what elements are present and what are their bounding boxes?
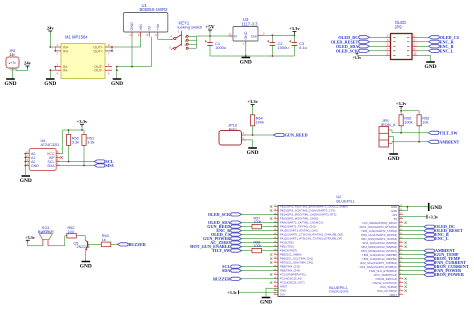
wire U1 +Vo into KEY1 [170,39,173,41]
wire U6 SDA [60,165,94,167]
svg-text:GND: GND [20,178,32,184]
svg-text:100k: 100k [254,244,262,248]
svg-text:GND: GND [80,263,92,269]
svg-text:I2C2_SDA(USART3_RX/PB11): I2C2_SDA(USART3_RX/PB11) [360,265,397,269]
svg-text:NRST: NRST [390,293,398,297]
svg-text:GND: GND [391,205,397,209]
svg-text:GUN_REED: GUN_REED [285,133,308,138]
svg-text:GND: GND [425,64,437,70]
svg-text:TIM3_CH3(ADC12_IN8/PB0): TIM3_CH3(ADC12_IN8/PB0) [362,253,397,257]
net flag SDA (U2) [231,269,242,272]
net flag TILT_SW (U2) [231,249,242,252]
svg-text:OLED_SCK: OLED_SCK [208,212,231,217]
svg-text:3: 3 [400,285,401,287]
svg-text:ANTI_TAMP(PC13): ANTI_TAMP(PC13) [374,273,397,277]
net flag GUN_REED [273,133,284,136]
net flag ENC_R [429,40,440,43]
wire JP8 pin1 to GND [12,68,14,79]
wire OLED_DC right [399,226,424,228]
net flag OLED_SDA [359,45,370,48]
wire FAN_POWER right [399,270,424,272]
resistor R58 100k [252,248,262,252]
net flag AMBIENT (U2) [424,249,435,252]
svg-text:+3.3v: +3.3v [77,119,88,124]
wire HOT_GUN_ENABLE to U2 [242,246,279,248]
svg-text:+5V: +5V [205,25,215,31]
wire U6 VCC to +3.3v [60,153,63,155]
net flag AMBIENT [428,140,439,143]
net flag OLED_RESET [359,40,370,43]
svg-text:100k: 100k [404,120,412,124]
wire M1 OUT- bus [116,67,118,71]
svg-text:PB5(I2C1_SMBA): PB5(I2C1_SMBA) [280,253,302,257]
svg-text:▸+7v: ▸+7v [9,61,16,65]
net flag SDA (U6) [94,164,105,167]
wire IRON_TEMP right [399,258,424,260]
svg-text:GND: GND [130,22,134,31]
svg-text:GND: GND [280,289,286,293]
net flag ENC_B (U2) [424,233,435,236]
JP9 pin stubs [386,36,391,38]
svg-text:SPI1_MISO(ADC12_IN6/PA6): SPI1_MISO(ADC12_IN6/PA6) [361,245,397,249]
net flag FAN_POWER (U2) [424,269,435,272]
wire SCL to U2 [242,266,279,268]
svg-text:TILT_SW: TILT_SW [439,130,458,135]
svg-text:ENC_L: ENC_L [435,236,449,241]
svg-text:PA11(USART1_CTS/CAN_RX/TIM1_CH: PA11(USART1_CTS/CAN_RX/TIM1_CH4/USB_DM) [280,233,343,237]
svg-text:OSC32_IN(PC14): OSC32_IN(PC14) [375,277,397,281]
resistor R56 10k [417,115,421,126]
svg-text:PB12(SPI2_NSS/TIM1_BKIN/USART3: PB12(SPI2_NSS/TIM1_BKIN/USART3_CK/I2C2_S… [280,205,348,209]
net flag BUZZER [117,243,128,246]
svg-text:locking switch: locking switch [178,24,203,29]
svg-text:14: 14 [400,241,402,243]
wire IRON_POWER right [399,274,424,276]
svg-text:46: 46 [274,289,276,291]
net flag SCL (U2) [231,265,242,268]
resistor R55 100k [399,115,403,126]
svg-text:SDA: SDA [222,268,230,273]
svg-text:PB3(JTDO): PB3(JTDO) [280,245,294,249]
net flag FAN_CURRENT (U2) [424,261,435,264]
svg-text:28: 28 [274,217,276,219]
wire JP5 pin1 to TILT_SW [389,130,429,133]
svg-text:PB15(SPI2_MOSI/TIM1_CH3N): PB15(SPI2_MOSI/TIM1_CH3N) [280,217,318,221]
svg-text:M1 MP1584: M1 MP1584 [65,35,88,40]
svg-text:42: 42 [274,273,276,275]
connector JP8 (24v battery input) [6,57,19,68]
wire M1 OUT+ to U1 VIN [111,47,113,51]
svg-text:PC14(OSC32_IN): PC14(OSC32_IN) [280,277,302,281]
svg-text:VCC_WAKEUP(PA0)_WKUP: VCC_WAKEUP(PA0)_WKUP [362,221,397,225]
net flag OLED_CS [429,36,440,39]
svg-text:24v: 24v [10,53,16,57]
svg-text:BUZZER: BUZZER [213,276,231,281]
wire ENC_R to U2 [242,230,279,232]
svg-text:1000u: 1000u [215,45,226,50]
net flag IRON_CURRENT (U2) [424,265,435,268]
ground M1 output [113,78,122,80]
svg-text:GND: GND [247,150,259,156]
resistor R51 3.3k [83,130,85,134]
svg-text:PA8(USART1_CK/TIM1_CH1/MCO): PA8(USART1_CK/TIM1_CH1/MCO) [280,221,323,225]
wire SDA to U2 [242,270,279,272]
svg-text:PB4(JNTRST): PB4(JNTRST) [280,249,297,253]
svg-text:0V: 0V [147,25,151,30]
wire OLED_SDA to U2 [242,222,279,224]
wire AMBIENT right [399,250,424,252]
svg-text:44: 44 [274,281,276,283]
svg-text:GND: GND [388,156,400,162]
net flag OLED_CS (U2) [231,233,242,236]
svg-text:PC13(TAMPER-RTC): PC13(TAMPER-RTC) [280,273,306,277]
net flag GUN_POWER (U2) [231,237,242,240]
wire JP5 pin2 to GND [389,137,394,154]
wire OLED_RESET right [399,230,424,232]
wire JP8 pin2 to 24v flag [16,67,28,71]
svg-text:PB14(SPI2_MISO/TIM1_CH2N/USART: PB14(SPI2_MISO/TIM1_CH2N/USART3_RTS) [280,213,336,217]
svg-text:PB13(SPI2_SCK/TIM1_CH1N/USART3: PB13(SPI2_SCK/TIM1_CH1N/USART3_CTS) [280,209,335,213]
resistor R63 1k [101,242,111,247]
svg-text:27: 27 [274,213,276,215]
svg-text:OUT-: OUT- [94,69,103,73]
power flag +3.3v (U6 pullups) [80,123,84,125]
net flag ENC_L [429,49,440,52]
no-connect marks U2 right [405,222,407,224]
svg-text:TILT_SW: TILT_SW [212,248,231,253]
U6 pin stubs [25,153,29,155]
svg-text:SDA: SDA [47,164,55,168]
resistor R50 3.3k [68,130,70,134]
svg-text:GND: GND [5,81,17,87]
svg-text:1k: 1k [102,238,106,242]
wire bottom rail C1-GND-C2-C3 [210,55,294,57]
U1 pin stubs [131,32,133,37]
net flag HOT_GUN_ENABLE (U2) [231,245,242,248]
wire U2 GND right [399,206,428,208]
wire JP9 pin10 to GND [417,55,431,61]
svg-text:SPI1_MOSI(ADC12_IN7/PA7): SPI1_MOSI(ADC12_IN7/PA7) [361,249,397,253]
svg-text:24v: 24v [47,26,55,31]
power flag +3.3v (JP5) [399,106,403,108]
wire +3.3v rail JP5 [400,107,402,115]
svg-text:TIM2_CH1_ETR(PA15): TIM2_CH1_ETR(PA15) [369,269,397,273]
net flag OLED_SCK [359,49,370,52]
wire U2 GND pin [266,288,278,297]
U3 pin stubs [229,35,234,37]
wire +3.3v into U2 [239,291,279,293]
svg-text:TIM2_CH4(USART2_RX/PA3): TIM2_CH4(USART2_RX/PA3) [361,233,397,237]
ground Q5 [82,261,91,263]
svg-text:21: 21 [400,213,402,215]
ground JP10 [248,147,257,149]
svg-text:1: 1 [400,293,401,295]
svg-text:BLUEPILL: BLUEPILL [329,285,348,290]
power flag 24v (JP8) [26,65,30,67]
ground JP8 [6,78,15,80]
svg-text:PA9(USART1_TX/TIM1_CH2): PA9(USART1_TX/TIM1_CH2) [280,225,316,229]
wire U6 SCL [60,161,94,163]
svg-text:1000u: 1000u [278,45,289,50]
ground flag right (bar) [428,203,430,211]
capacitor C2 1000u [271,35,273,42]
svg-text:10k: 10k [422,120,428,124]
wire buzzer to R62 [48,236,67,246]
M1 left pin stubs [55,46,61,48]
wire R63 to BUZZER flag [111,243,118,245]
wire JP5 pin3 to AMBIENT [389,142,429,144]
wire OLED_SCK to U2 [242,213,279,215]
net flag OLED_DC (U2) [424,225,435,228]
wire KEY1 to +5V rail [188,35,196,37]
svg-text:38: 38 [274,257,276,259]
wire TILT_SW to U2 with R58 [242,250,253,252]
svg-text:GND: GND [244,31,248,39]
wire GUN_POWER to U2 [242,238,279,240]
wire +5V tap [209,30,211,36]
svg-text:PB9(TIM4_CH4): PB9(TIM4_CH4) [280,269,300,273]
net flag BUZZER (U2) [231,277,242,280]
svg-text:OUT+: OUT+ [93,49,103,53]
svg-text:Out: Out [251,34,257,38]
U2 right pin stubs and names [399,206,403,208]
resistor R62 100 [67,233,77,238]
svg-text:+3.3v: +3.3v [289,26,300,31]
svg-text:BUZZER: BUZZER [38,229,54,234]
wire JP10 pin2 to GND [246,140,252,148]
resistor R64 100k [252,105,254,115]
wire M1 OUT- to GND [116,70,118,78]
svg-text:ENC_L: ENC_L [440,48,454,53]
svg-text:13: 13 [400,245,402,247]
ground U3 [242,57,251,59]
capacitor C1 1000u [209,36,211,43]
svg-text:19: 19 [400,221,402,223]
wire IRON_CURRENT right [399,266,424,268]
ground U2 [262,297,271,299]
JP10 pin stubs [242,134,247,136]
svg-text:+3.3v: +3.3v [247,99,258,104]
svg-text:+3.3v: +3.3v [352,56,361,60]
net flag ENC_L (U2) [424,237,435,240]
ground JP5 [389,153,398,155]
svg-text:+3.3v: +3.3v [227,290,238,295]
svg-text:100k: 100k [256,120,264,124]
svg-text:OSC32_OUT(PC15): OSC32_OUT(PC15) [373,281,398,285]
power flag +3.3v (buzzer) [26,239,30,241]
svg-text:0.1u: 0.1u [299,45,307,50]
svg-text:5V: 5V [394,217,397,221]
svg-text:+3.3v: +3.3v [428,214,439,219]
capacitor C3 0.1u [293,35,295,42]
svg-text:37: 37 [274,253,276,255]
svg-text:47: 47 [274,293,276,295]
wire AC_ZERO to U2 [242,242,279,244]
svg-text:IN+: IN+ [63,49,69,53]
ground M1 input [46,78,55,80]
svg-text:OSC_IN(PD0): OSC_IN(PD0) [380,285,397,289]
net flag OLED_RESET (U2) [424,229,435,232]
svg-text:NRST: NRST [280,285,288,289]
svg-text:3.3k: 3.3k [87,140,94,144]
svg-text:GND: GND [430,205,442,211]
svg-text:BLUEPILL: BLUEPILL [336,198,355,203]
net flag GUN_TEMP (U2) [424,253,435,256]
ground JP9 [426,61,435,63]
JP9 right wires [417,36,429,38]
svg-text:AT24C32D: AT24C32D [41,143,60,147]
svg-text:GND: GND [391,209,397,213]
net flag IRON_TEMP (U2) [424,257,435,260]
svg-text:STM32F103C8T6: STM32F103C8T6 [329,291,349,294]
svg-text:IRON_POWER: IRON_POWER [435,272,465,277]
svg-text:GND: GND [111,81,123,87]
svg-text:GND: GND [44,81,56,87]
wire BUZZER to U2 [242,278,279,280]
svg-text:PA15(JTDI): PA15(JTDI) [280,241,294,245]
svg-text:PB6(I2C1_SCL/TIM4_CH1): PB6(I2C1_SCL/TIM4_CH1) [280,257,313,261]
wire ENC_B right [399,234,424,236]
wire M1 IN- to GND [54,67,56,71]
svg-text:39: 39 [274,261,276,263]
wire U3 out to +3.3v [263,34,295,36]
net flag IRON_POWER (U2) [424,273,435,276]
power flag +3.3v (JP10) [251,104,255,106]
svg-text:PC15(OSC32_OUT): PC15(OSC32_OUT) [280,281,305,285]
svg-text:PB8(TIM4_CH3): PB8(TIM4_CH3) [280,265,300,269]
svg-text:20: 20 [400,217,402,219]
U2 left pin stubs and names [274,206,278,208]
power flag +5V [208,29,212,31]
svg-text:B0505S-1WR2: B0505S-1WR2 [140,7,169,12]
svg-text:GND: GND [260,299,272,305]
wire U6 address pins to GND [24,154,26,173]
svg-text:3.3k: 3.3k [72,140,79,144]
svg-text:TIM3_CH4(ADC12_IN9/PB1): TIM3_CH4(ADC12_IN9/PB1) [362,257,397,261]
svg-text:PA12(USART1_RTS/CAN_TX/TIM1_ET: PA12(USART1_RTS/CAN_TX/TIM1_ETR/USB_DP) [280,237,342,241]
svg-text:SPI1_SCK(ADC12_IN5/PA5): SPI1_SCK(ADC12_IN5/PA5) [362,241,397,245]
power flag 24v (M1 input) [48,30,52,32]
net flag GUN_REED (U2) [231,225,242,228]
svg-text:In: In [234,34,237,38]
svg-text:JP9: JP9 [394,25,402,30]
wire ENC_L right [399,238,424,240]
net flag ENC_B [429,45,440,48]
svg-text:SPI1_NSS(USART2_CK/PA4): SPI1_NSS(USART2_CK/PA4) [361,237,397,241]
power flag +3.3v (main) [293,32,295,36]
svg-text:VIN: VIN [139,24,143,31]
wire OLED_CS to U2 [242,234,279,236]
svg-text:+3.3v: +3.3v [25,235,36,240]
svg-text:+3.3v: +3.3v [396,101,407,106]
svg-text:25: 25 [274,205,276,207]
wire U3 GND to rail [245,45,247,56]
svg-text:AMBIENT: AMBIENT [439,139,459,144]
svg-text:4: 4 [400,281,401,283]
svg-text:45: 45 [274,285,276,287]
wire U2 +3.3v right [399,216,427,218]
svg-text:IN-: IN- [63,69,69,73]
svg-text:BUZZER: BUZZER [129,242,147,247]
wire GUN_TEMP right [399,254,424,256]
svg-text:2: 2 [400,289,401,291]
svg-text:TIM2_CH3(USART2_TX/PA2): TIM2_CH3(USART2_TX/PA2) [361,229,397,233]
wire R62 to Q5 collector [76,236,85,240]
no-connect marks U2 left [270,206,272,208]
JP9 left wires [370,36,386,38]
net flag OLED_DC [359,36,370,39]
svg-text:5: 5 [400,277,401,279]
wire JP9 pin9 +3.3v [357,54,386,56]
svg-text:3V3: 3V3 [280,293,285,297]
svg-text:24v: 24v [24,61,32,66]
svg-text:I2C2_SCL(USART3_TX/PB10): I2C2_SCL(USART3_TX/PB10) [360,261,397,265]
net flag OLED_SDA (U2) [231,221,242,224]
net flag ENC_R (U2) [231,229,242,232]
svg-text:GND: GND [31,164,39,168]
wire JP10 pin1 to GUN_REED [246,134,273,136]
M1 right pin stubs [105,46,112,48]
wire +3.3v to buzzer [28,240,43,246]
svg-text:PB7(I2C1_SDA/TIM4_CH2): PB7(I2C1_SDA/TIM4_CH2) [280,261,313,265]
svg-text:100: 100 [68,230,74,234]
wire +3.3v rail U6 [81,124,83,130]
svg-text:GND: GND [240,60,252,66]
wire Q5 emitter to GND [85,251,87,262]
net flag SCL (U6) [94,160,105,163]
svg-text:PA10(USART1_RX/TIM1_CH3): PA10(USART1_RX/TIM1_CH3) [280,229,318,233]
svg-text:OSC_OUT(PD1): OSC_OUT(PD1) [377,289,397,293]
net flag AC_ZERO (U2) [231,241,242,244]
no-connect U6 WP [60,156,62,158]
svg-text:1117-3.3: 1117-3.3 [242,21,259,26]
wire FAN_CURRENT right [399,262,424,264]
wire GUN_REED to U2 with R57 [242,226,253,228]
net flag TILT_SW [428,131,439,134]
svg-text:3V3: 3V3 [392,213,397,217]
wire Q5 base to R63 [88,243,102,245]
regulator module M1 MP1584 [61,44,105,79]
svg-text:OLED_SCK: OLED_SCK [336,48,359,53]
svg-text:+Vo: +Vo [156,24,160,31]
wire 24v to M1 IN+ [50,31,55,47]
wire U1 +Vo to KEY1 [158,37,172,40]
net flag OLED_SCK (U2) [231,213,242,216]
svg-text:26: 26 [274,209,276,211]
svg-text:ADC1_IN1(USART2_RTS/PA1): ADC1_IN1(USART2_RTS/PA1) [359,225,397,229]
ground U6 [22,175,31,177]
resistor R57 100k [252,224,262,228]
power flag +3.3v (U2) [238,290,240,294]
svg-text:SDA: SDA [105,163,113,168]
svg-text:100k: 100k [254,220,262,224]
